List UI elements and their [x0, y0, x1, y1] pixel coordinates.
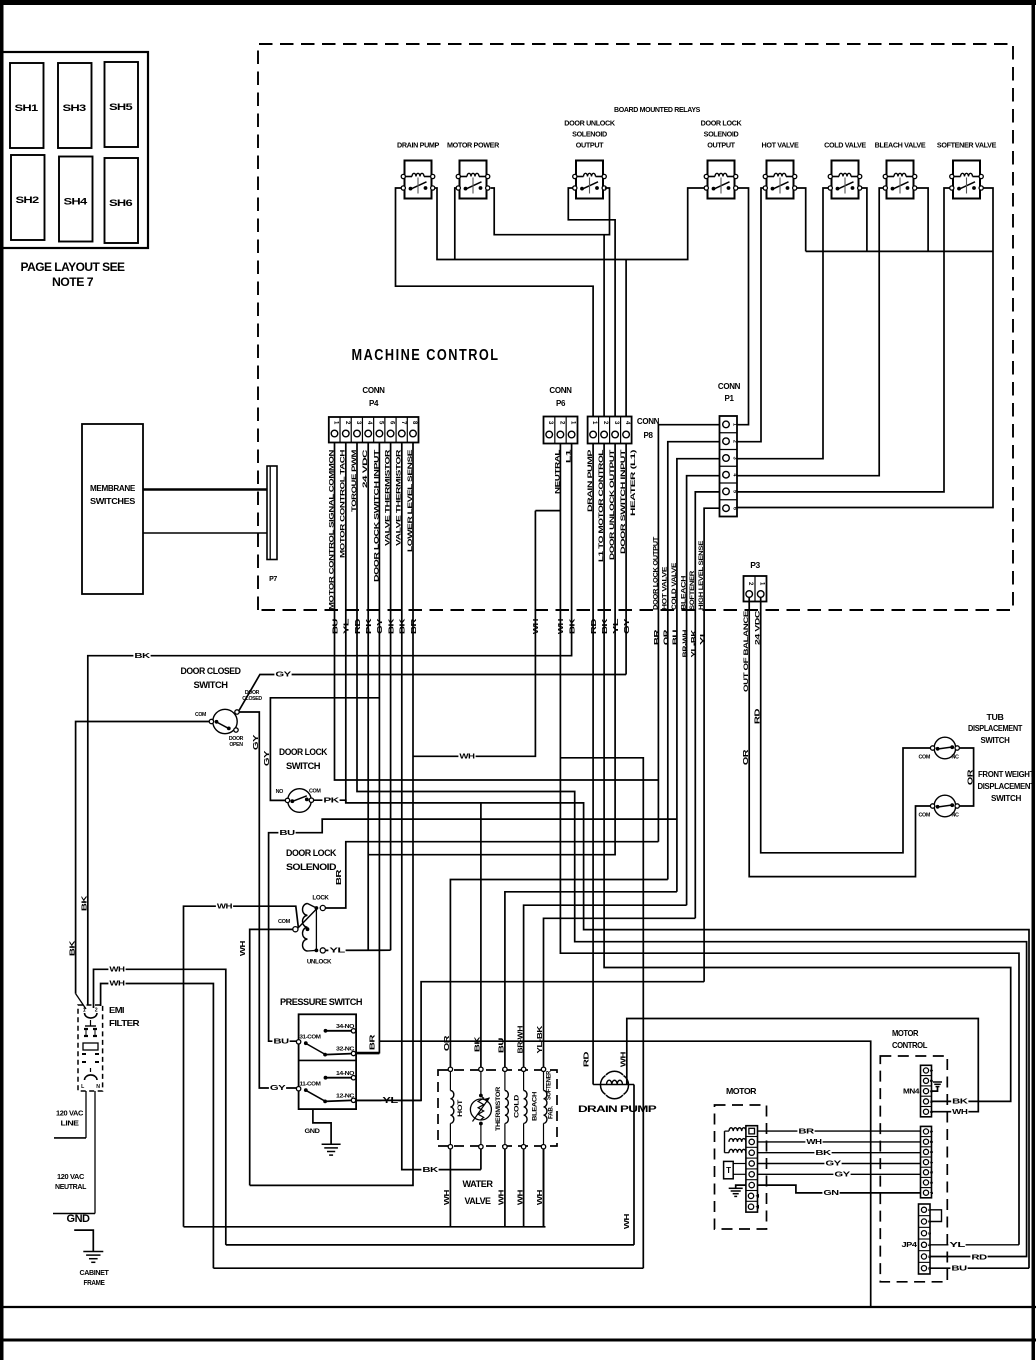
wire water valve WH drop x504.9 — [504, 1149, 506, 1227]
wire P4 pin5 GY to door lock switch NO and pressure switch 32-NC — [355, 443, 379, 1053]
svg-text:DOOR LOCK OUTPUT: DOOR LOCK OUTPUT — [652, 536, 659, 610]
svg-text:SH5: SH5 — [109, 102, 133, 112]
svg-text:BK: BK — [69, 941, 76, 957]
svg-text:SOLENOID: SOLENOID — [286, 862, 337, 873]
wire P1 SOFTENER — [695, 492, 719, 918]
svg-text:DOOR LOCK: DOOR LOCK — [286, 848, 337, 859]
svg-text:2: 2 — [95, 1008, 98, 1014]
wire door closed COM to EMI filter — [76, 722, 210, 994]
motor control connector MN4 — [903, 1065, 934, 1117]
svg-text:120 VAC: 120 VAC — [57, 1174, 84, 1181]
wire cold valve relay left to P1 pin3 — [737, 188, 828, 459]
svg-text:BU: BU — [499, 1038, 506, 1054]
connector P8 — [588, 417, 660, 444]
wire softener valve relay right to P1 pin6 — [737, 188, 993, 508]
svg-text:BR: BR — [411, 619, 418, 635]
svg-text:WH: WH — [240, 941, 247, 957]
wire door lock relay right to P1 pin1 — [737, 188, 749, 425]
relay DRAIN PUMP — [397, 141, 440, 199]
wire water valve WH drop x523.6 — [523, 1149, 525, 1227]
svg-text:FRONT WEIGHT: FRONT WEIGHT — [978, 770, 1034, 779]
wire P4 pin7 BK to water valve thermistor — [402, 443, 481, 1170]
svg-text:PK: PK — [366, 619, 373, 635]
wire motor BK — [758, 1152, 921, 1154]
wire door lock switch COM PK to P4 pin2 — [314, 800, 346, 803]
svg-text:FAB.: FAB. — [548, 1105, 555, 1119]
svg-text:CONN: CONN — [718, 382, 741, 391]
svg-text:BK: BK — [82, 896, 89, 912]
water valve terminal top x480.9 — [479, 1067, 483, 1071]
water valve terminal bottom x523.6 — [521, 1145, 525, 1149]
sheet box SH5 — [105, 62, 139, 147]
svg-text:SWITCH: SWITCH — [286, 761, 321, 772]
water valve COLD coil — [505, 1072, 521, 1145]
svg-text:BK: BK — [400, 619, 407, 635]
svg-text:COLD: COLD — [514, 1094, 521, 1118]
wire water valve WH drop x543.5 — [543, 1149, 545, 1227]
svg-text:YL: YL — [949, 1242, 966, 1249]
svg-text:HOT: HOT — [457, 1099, 464, 1117]
wire EMI terminal 2 WH lower to bottom bus — [101, 984, 214, 1269]
svg-text:DRAIN PUMP: DRAIN PUMP — [578, 1104, 658, 1115]
svg-text:BU: BU — [951, 1265, 967, 1272]
svg-text:DOOR LOCK: DOOR LOCK — [279, 747, 328, 758]
connector P4 — [329, 386, 419, 443]
svg-text:SOLENOID: SOLENOID — [704, 130, 739, 139]
svg-text:BK: BK — [422, 1167, 438, 1174]
svg-text:P3: P3 — [750, 560, 760, 570]
svg-text:WH: WH — [217, 903, 233, 910]
svg-text:NO: NO — [276, 789, 284, 795]
svg-text:BLEACH VALVE: BLEACH VALVE — [875, 141, 926, 150]
svg-text:OUTPUT: OUTPUT — [576, 141, 604, 150]
title block line lower — [0, 1339, 1036, 1342]
wire YL-BK from P1 pin5 to water valve — [544, 918, 696, 1067]
wire P4 pin6 BK down to unlock wire — [390, 443, 392, 951]
svg-text:RD: RD — [754, 709, 761, 725]
svg-text:BR: BR — [654, 630, 661, 646]
wire P4 pin2 YL to motor control via right column — [346, 443, 1029, 1269]
svg-text:DRAIN PUMP: DRAIN PUMP — [397, 141, 440, 150]
water valve terminal top x543.5 — [541, 1067, 545, 1071]
svg-text:P1: P1 — [724, 394, 734, 403]
wire P1 BLEACH — [687, 476, 720, 906]
svg-text:BK: BK — [569, 619, 576, 635]
svg-text:YL: YL — [700, 628, 707, 645]
svg-text:WH: WH — [952, 1109, 968, 1116]
wire WH solenoid COM return to neutral bus — [184, 906, 299, 1227]
water valve BLEACH coil — [524, 1072, 539, 1145]
svg-text:WH: WH — [444, 1190, 451, 1206]
svg-text:FILTER: FILTER — [109, 1018, 139, 1028]
svg-text:HEATER (L1): HEATER (L1) — [630, 450, 637, 516]
wire tub NC to front weight NC OR link — [959, 748, 973, 806]
wire WH bus bottom to right column — [213, 1267, 643, 1269]
svg-text:NOTE 7: NOTE 7 — [52, 277, 93, 289]
wire door closed contact GY to P8 pin4 — [239, 675, 626, 711]
pressure switch — [280, 997, 363, 1109]
water valve terminal top x523.6 — [521, 1067, 525, 1071]
svg-text:COM: COM — [918, 813, 930, 819]
svg-text:SOFTENER: SOFTENER — [546, 1070, 553, 1100]
JP4 jumper pins 1-2 — [930, 1210, 942, 1222]
svg-text:BR: BR — [798, 1128, 814, 1135]
svg-text:BK: BK — [388, 619, 395, 635]
svg-text:GND: GND — [305, 1128, 321, 1135]
GND cabinet frame ground — [67, 1213, 110, 1287]
svg-text:BR-WH: BR-WH — [517, 1026, 524, 1054]
svg-text:JP4: JP4 — [902, 1242, 918, 1249]
door lock solenoid — [278, 848, 337, 966]
motor connector — [746, 1126, 759, 1212]
wire P4 pin4 PK down — [367, 443, 369, 951]
svg-text:THERMISTOR: THERMISTOR — [495, 1086, 502, 1131]
wire JP4 pin4 YL — [930, 1244, 1019, 1246]
svg-text:SH2: SH2 — [16, 195, 40, 205]
svg-text:WH: WH — [558, 619, 565, 635]
svg-text:DISPLACEMENT: DISPLACEMENT — [978, 782, 1035, 791]
wire P1 DOOR LOCK OUTPUT — [658, 425, 719, 842]
svg-text:BR: BR — [370, 1035, 377, 1051]
svg-text:MN4: MN4 — [903, 1089, 920, 1096]
svg-text:YL-BK: YL-BK — [537, 1026, 544, 1054]
svg-text:COM: COM — [309, 789, 321, 795]
front weight displacement switch — [918, 770, 1034, 819]
svg-text:BU: BU — [279, 830, 295, 837]
svg-text:DOOR CLOSED: DOOR CLOSED — [181, 666, 242, 677]
svg-text:OPEN: OPEN — [229, 742, 243, 748]
wire motor power relay right / L1 bus — [491, 188, 610, 235]
membrane switches box — [82, 424, 143, 594]
svg-text:2: 2 — [732, 440, 738, 443]
tub displacement switch — [918, 713, 1022, 761]
drain pump — [578, 1071, 658, 1115]
sheet box SH4 — [59, 157, 93, 242]
relay DOOR UNLOCK SOLENOID OUTPUT — [564, 119, 616, 199]
page border right — [1032, 0, 1036, 1360]
wire water valve WH drop x450.4 — [449, 1149, 451, 1227]
svg-text:RD: RD — [591, 619, 598, 635]
wire P8 pin1 RD to drain pump — [592, 444, 594, 1085]
wire motor GY — [758, 1163, 921, 1165]
svg-text:BR: BR — [336, 870, 343, 886]
svg-text:BK: BK — [134, 653, 150, 660]
svg-text:P7: P7 — [269, 576, 277, 583]
svg-text:UNLOCK: UNLOCK — [307, 959, 332, 966]
wire P8 pin2 BK to motor control MN4 — [604, 444, 1011, 1102]
svg-text:MEMBRANE: MEMBRANE — [90, 484, 136, 493]
wire pressure switch 12-NC to YL riser — [356, 1099, 421, 1101]
wire P1 COLD VALVE — [677, 459, 720, 892]
svg-text:BK: BK — [602, 619, 609, 635]
connector P7 — [267, 466, 277, 583]
wire thermistor top BK riser — [480, 803, 482, 1067]
wire cold/bleach BU from P1 pin3 and pressure switch 31-COM — [505, 892, 677, 1068]
svg-text:WH: WH — [499, 1190, 506, 1206]
motor thermistor T — [724, 1161, 746, 1178]
svg-text:DISPLACEMENT: DISPLACEMENT — [968, 724, 1022, 733]
wire WH bus under water valve — [184, 1226, 546, 1228]
svg-text:GY: GY — [270, 1085, 286, 1092]
svg-text:OR: OR — [444, 1036, 451, 1052]
svg-text:VALVE: VALVE — [465, 1196, 491, 1207]
svg-text:CONN: CONN — [637, 417, 660, 426]
svg-text:BK: BK — [815, 1150, 831, 1157]
svg-text:YL: YL — [344, 617, 351, 634]
wire membrane to P7 upper — [143, 488, 267, 490]
svg-text:P6: P6 — [556, 399, 566, 408]
motor control connector JP4 — [902, 1204, 932, 1274]
sheet box SH6 — [105, 158, 139, 243]
svg-text:SH3: SH3 — [63, 103, 87, 113]
relay HOT VALVE — [762, 141, 799, 199]
wire BK L1 from EMI filter to P6 pin1 — [88, 444, 572, 1006]
svg-text:SOFTENER: SOFTENER — [689, 571, 696, 610]
svg-text:SOLENOID: SOLENOID — [572, 130, 607, 139]
svg-text:LOCK: LOCK — [312, 895, 329, 902]
svg-text:COLD VALVE: COLD VALVE — [824, 141, 866, 150]
motor dashed box — [715, 1105, 767, 1229]
wire motor power relay left stub — [455, 188, 457, 260]
water valve terminal bottom x480.9 — [479, 1145, 483, 1149]
svg-text:SWITCH: SWITCH — [194, 680, 229, 691]
svg-text:GY: GY — [377, 618, 384, 634]
svg-text:WH: WH — [517, 1190, 524, 1206]
svg-text:RD: RD — [583, 1052, 590, 1068]
water valve terminal top x504.9 — [503, 1067, 507, 1071]
water valve THERMISTOR — [470, 1072, 502, 1145]
wire door lock solenoid UNLOCK YL — [325, 949, 390, 951]
relay COLD VALVE — [824, 141, 866, 199]
svg-text:COM: COM — [278, 919, 291, 925]
svg-text:BU: BU — [673, 630, 680, 646]
wire motor GN — [758, 1185, 921, 1193]
door lock switch — [276, 747, 328, 812]
wire P3 pin2 OR to front weight displacement switch — [749, 597, 932, 877]
svg-text:BR-WH: BR-WH — [682, 630, 689, 658]
wire JP4 pin6 BU — [930, 1267, 1029, 1269]
svg-text:OR: OR — [664, 630, 671, 646]
svg-text:DOOR LOCK: DOOR LOCK — [701, 119, 743, 128]
sheet box SH2 — [11, 155, 45, 240]
wire P4 pin3 RD to JP4 RD — [357, 443, 1027, 1257]
svg-text:COM: COM — [918, 755, 930, 761]
svg-text:WH: WH — [109, 981, 125, 988]
page border left — [0, 0, 4, 1360]
water valve terminal bottom x543.5 — [541, 1145, 545, 1149]
connector P3 — [744, 560, 767, 602]
svg-text:FRAME: FRAME — [84, 1280, 106, 1287]
water valve terminal bottom x450.4 — [448, 1145, 452, 1149]
wire door unlock relay left to P8 pin3 — [568, 188, 615, 417]
wire drain pump relay right / door-switch bus — [435, 188, 705, 260]
door closed switch — [181, 666, 263, 748]
svg-text:SWITCH: SWITCH — [991, 794, 1022, 803]
svg-text:T: T — [726, 1166, 731, 1175]
water valve terminal top x450.4 — [448, 1067, 452, 1071]
wire heater L1 from 32-NC riser to bottom — [379, 1041, 870, 1307]
svg-text:HOT VALVE: HOT VALVE — [662, 566, 669, 610]
svg-text:GN: GN — [823, 1190, 839, 1197]
svg-text:YL: YL — [329, 948, 346, 955]
svg-text:GND: GND — [67, 1213, 91, 1225]
wire drain pump WH riser to motor control — [627, 1019, 979, 1112]
svg-text:BK: BK — [952, 1099, 968, 1106]
svg-text:CABINET: CABINET — [80, 1270, 110, 1277]
water valve terminal bottom x504.9 — [503, 1145, 507, 1149]
wire P1 HOT VALVE — [668, 442, 720, 880]
svg-text:PK: PK — [323, 797, 339, 804]
svg-text:NC: NC — [952, 813, 960, 819]
relay BLEACH VALVE — [875, 141, 926, 199]
svg-text:MOTOR: MOTOR — [892, 1028, 918, 1038]
svg-text:WH: WH — [624, 1214, 631, 1230]
motor control dashed box — [880, 1056, 947, 1282]
wire P8 pin4 branch from door-switch bus — [625, 260, 627, 417]
svg-text:MACHINE CONTROL: MACHINE CONTROL — [352, 347, 500, 364]
wire drain pump relay left to P8 pin1 — [396, 188, 594, 417]
svg-text:WATER: WATER — [463, 1179, 494, 1190]
svg-text:OR: OR — [743, 750, 750, 766]
EMI filter — [78, 1005, 139, 1091]
water valve FAB SOFTENER coil — [544, 1070, 555, 1144]
svg-text:3: 3 — [732, 457, 738, 460]
wire P4 pin1 BU — [335, 443, 659, 781]
wire drain pump WH return to bus — [633, 1085, 635, 1245]
svg-text:MOTOR POWER: MOTOR POWER — [447, 141, 500, 150]
wire YL high level sense from P1 pin6 to pressure switch 12-NC — [355, 982, 704, 1101]
wire cold valve relay right to bus — [862, 188, 867, 251]
wire WH membrane-area branch to P4 pin8 column — [535, 510, 560, 512]
svg-text:BLEACH: BLEACH — [532, 1091, 539, 1121]
svg-text:PRESSURE SWITCH: PRESSURE SWITCH — [280, 997, 363, 1008]
wire WH bus drain pump return — [226, 1244, 634, 1246]
wire EMI N to 120VAC neutral — [94, 1091, 96, 1214]
svg-text:CONN: CONN — [549, 386, 572, 395]
svg-text:P8: P8 — [643, 431, 653, 440]
wire motor BR — [758, 1130, 921, 1132]
svg-text:NC: NC — [952, 755, 960, 761]
wire hot valve relay left to P1 pin2 — [737, 188, 763, 442]
svg-text:N: N — [96, 1084, 100, 1090]
svg-text:GY: GY — [264, 750, 271, 766]
svg-text:HOT VALVE: HOT VALVE — [762, 141, 799, 150]
svg-text:LINE: LINE — [61, 1121, 80, 1128]
wire EMI terminal 2 WH to drain pump bus — [94, 969, 226, 1245]
water valve dashed box — [438, 1070, 557, 1146]
svg-text:COLD VALVE: COLD VALVE — [671, 562, 678, 610]
wire P1 HIGH LEVEL SENSE — [704, 508, 719, 982]
svg-text:SWITCH: SWITCH — [981, 736, 1011, 745]
page border top — [0, 0, 1036, 5]
machine control dashed boundary — [258, 44, 1013, 610]
svg-text:WH: WH — [459, 754, 475, 761]
sheet box SH1 — [10, 63, 44, 148]
wire P6 pin2 neutral WH down — [560, 444, 1019, 1245]
wire pressure switch 32-NC to riser — [356, 1053, 380, 1055]
wire P4 pin8 BR to door lock solenoid COM — [250, 443, 413, 1186]
svg-text:WH: WH — [621, 1052, 628, 1068]
svg-text:RD: RD — [355, 619, 362, 635]
wire hot valve relay right to valve common bus — [797, 188, 806, 251]
svg-text:WH: WH — [533, 619, 540, 635]
svg-text:WH: WH — [806, 1139, 822, 1146]
svg-text:COM: COM — [195, 712, 206, 718]
svg-text:BU: BU — [332, 619, 339, 635]
svg-text:11-COM: 11-COM — [300, 1082, 322, 1088]
svg-text:SH4: SH4 — [64, 197, 88, 207]
svg-text:OUTPUT: OUTPUT — [707, 141, 735, 150]
motor ground — [729, 1185, 746, 1196]
svg-text:HIGH LEVEL SENSE: HIGH LEVEL SENSE — [698, 540, 705, 610]
svg-text:CONTROL: CONTROL — [892, 1040, 927, 1050]
svg-text:GY: GY — [825, 1161, 841, 1168]
wire bleach valve relay left to P1 pin4 — [737, 188, 883, 476]
connector P6 — [544, 386, 578, 444]
svg-text:1: 1 — [732, 423, 738, 426]
wire EMI L to 120VAC line — [85, 1091, 87, 1138]
sheet box SH3 — [58, 63, 92, 148]
svg-text:120 VAC: 120 VAC — [56, 1111, 83, 1118]
pressure switch ground wire — [313, 1109, 331, 1144]
svg-text:YL: YL — [613, 617, 620, 634]
svg-text:PAGE LAYOUT SEE: PAGE LAYOUT SEE — [21, 262, 126, 274]
wire hot valve OR from P1 pin2 — [450, 880, 667, 1068]
motor windings — [725, 1128, 746, 1153]
connector P1 — [718, 382, 741, 517]
motor control MN4 pin3 ground — [932, 1082, 943, 1091]
svg-text:P4: P4 — [369, 399, 379, 408]
wire P8 pin3 YL to door lock solenoid UNLOCK — [368, 444, 615, 855]
wire motor WH — [758, 1141, 921, 1143]
120 VAC LINE source — [54, 1111, 86, 1138]
water valve HOT coil — [450, 1072, 464, 1145]
wire door closed contact down GY to pressure switch 11-COM — [239, 712, 298, 1088]
wire membrane to P7 lower — [143, 532, 267, 534]
svg-text:5: 5 — [732, 490, 738, 493]
svg-text:BU: BU — [273, 1038, 289, 1045]
svg-text:EMI: EMI — [109, 1005, 124, 1015]
svg-text:GY: GY — [253, 734, 260, 750]
wire EMI terminal 1 diagonal — [76, 994, 86, 1009]
wire motor GY — [758, 1173, 921, 1175]
svg-text:RD: RD — [971, 1255, 987, 1262]
120 VAC NEUTRAL source — [53, 1174, 95, 1214]
svg-text:6: 6 — [732, 507, 738, 510]
wire WH branch jog to right column — [560, 758, 643, 1268]
svg-text:NEUTRAL: NEUTRAL — [55, 1184, 87, 1191]
svg-text:WH: WH — [109, 967, 125, 974]
svg-text:BOARD MOUNTED RELAYS: BOARD MOUNTED RELAYS — [614, 105, 701, 114]
valve common bus — [806, 250, 993, 252]
svg-text:SH1: SH1 — [15, 103, 39, 113]
svg-text:GY: GY — [624, 618, 631, 634]
svg-text:SWITCHES: SWITCHES — [90, 497, 136, 506]
wire P3 pin1 RD to tub displacement switch — [761, 597, 932, 853]
svg-text:SH6: SH6 — [109, 198, 133, 208]
wire BR-WH from P1 pin4 to water valve — [524, 905, 687, 1067]
relay SOFTENER VALVE — [937, 141, 997, 199]
svg-text:OR: OR — [967, 770, 974, 786]
svg-text:31-COM: 31-COM — [300, 1035, 322, 1041]
wire bleach valve relay right to bus — [917, 188, 929, 251]
svg-text:CONN: CONN — [362, 386, 385, 395]
wire door lock solenoid LOCK BR to P1 pin1 wire — [325, 842, 658, 908]
svg-text:TUB: TUB — [987, 713, 1005, 722]
title block line upper — [0, 1306, 1036, 1308]
svg-text:BLEACH: BLEACH — [681, 576, 688, 610]
relay MOTOR POWER — [447, 141, 500, 199]
